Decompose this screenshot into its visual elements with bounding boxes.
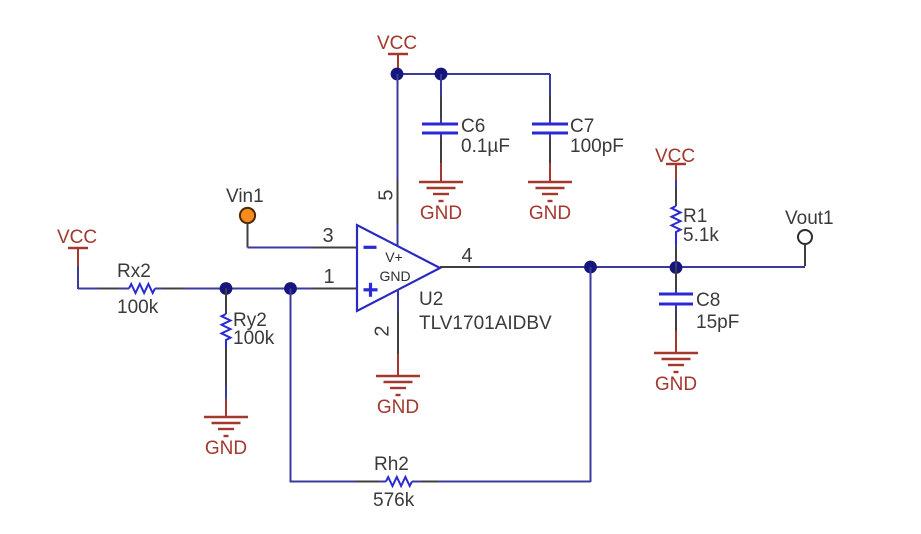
svg-text:GND: GND [655, 374, 697, 395]
svg-text:Rh2: Rh2 [374, 454, 409, 475]
svg-text:2: 2 [371, 325, 393, 336]
resistor R1 [672, 180, 681, 267]
junction output/feedback [584, 261, 597, 274]
op-amp U2 triangle [357, 225, 440, 311]
svg-text:5: 5 [375, 189, 397, 200]
svg-text:V+: V+ [385, 249, 403, 265]
svg-text:100k: 100k [117, 297, 159, 318]
junction at Ry2 tap [220, 282, 233, 295]
svg-text:3: 3 [322, 225, 333, 247]
svg-text:GND: GND [529, 203, 571, 224]
op-amp minus symbol [364, 246, 377, 249]
node Vout1 [785, 208, 834, 244]
value label C7 100pF [570, 116, 624, 157]
svg-text:1: 1 [323, 266, 334, 288]
svg-text:4: 4 [461, 245, 472, 267]
junction on VCC rail at pin-5 column [391, 68, 404, 81]
svg-text:0.1µF: 0.1µF [461, 136, 510, 157]
wire feedback bottom run (right of Rh2) [412, 481, 591, 483]
svg-text:Vin1: Vin1 [226, 186, 264, 207]
junction at feedback tap [284, 282, 297, 295]
value label C6 0.1uF [461, 116, 510, 157]
ground GND (below C8) [654, 331, 698, 395]
svg-text:Vout1: Vout1 [785, 208, 834, 229]
junction output/R1/C8 [670, 261, 683, 274]
svg-text:C6: C6 [461, 116, 485, 137]
wire VCC left drop [77, 266, 79, 289]
svg-text:C8: C8 [696, 290, 720, 311]
svg-text:GND: GND [377, 397, 419, 418]
svg-text:C7: C7 [570, 116, 594, 137]
wire U2 pin 5 net (VCC rail down to op-amp) [397, 74, 399, 246]
wire U2 pin 2 to ground [397, 289, 399, 354]
power symbol VCC (top rail) [377, 33, 417, 71]
svg-text:VCC: VCC [57, 227, 97, 248]
wire VCC rail drop to C7 [549, 74, 551, 123]
resistor Rh2 [386, 477, 412, 486]
wire inverting net (Rx2 to U2 pin 1) [155, 288, 357, 290]
wire U2 output (pin 4) [440, 266, 805, 268]
svg-text:VCC: VCC [377, 33, 417, 54]
resistor Ry2 [222, 289, 231, 349]
ground GND (U2 pin 2) [376, 354, 420, 418]
ground GND (below Ry2) [204, 399, 248, 459]
resistor Rx2 [129, 284, 155, 293]
power symbol VCC (left) [57, 227, 97, 266]
wire Vout1 drop to output net [804, 244, 806, 266]
wire feedback bottom run (left of Rh2) and left vertical [291, 289, 387, 482]
svg-text:100k: 100k [233, 328, 275, 349]
capacitor C7 [532, 124, 568, 163]
node Vin1 [226, 186, 264, 223]
junction on VCC rail at C6 [435, 68, 448, 81]
svg-text:100pF: 100pF [570, 136, 624, 157]
wire Vin1 to U2 pin 3 [248, 223, 358, 248]
svg-text:GND: GND [379, 268, 410, 284]
capacitor C6 [422, 74, 458, 163]
svg-text:R1: R1 [683, 206, 707, 227]
op-amp plus symbol [364, 283, 378, 297]
value label C8 15pF [696, 290, 739, 333]
wire feedback right vertical [590, 267, 592, 482]
svg-text:576k: 576k [373, 490, 415, 511]
power symbol VCC (R1) [655, 146, 695, 180]
wire inverting net (left run with Rx2) [78, 288, 129, 290]
svg-text:TLV1701AIDBV: TLV1701AIDBV [419, 313, 552, 334]
capacitor C8 [659, 267, 693, 331]
svg-text:Rx2: Rx2 [117, 261, 151, 282]
wire VCC top rail [397, 73, 550, 75]
svg-text:U2: U2 [419, 289, 443, 310]
svg-text:5.1k: 5.1k [683, 225, 719, 246]
svg-text:GND: GND [420, 203, 462, 224]
ground GND (below C7) [528, 163, 572, 224]
svg-text:GND: GND [205, 438, 247, 459]
wire Ry2 to ground [225, 348, 227, 399]
ground GND (below C6) [419, 163, 463, 224]
svg-text:15pF: 15pF [696, 312, 739, 333]
